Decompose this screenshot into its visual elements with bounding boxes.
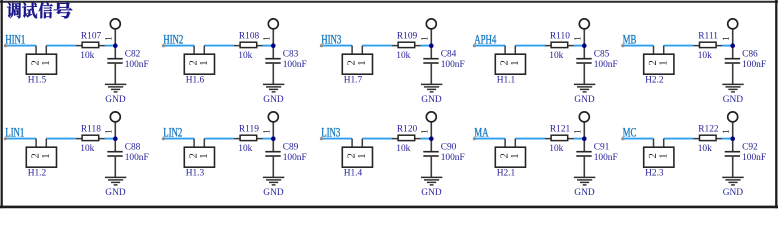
wire MC to connector pin 2 <box>623 138 654 140</box>
capacitor C84 to ground wire <box>430 64 432 84</box>
wire connector pin 1 to resistor R111 <box>664 45 694 47</box>
capacitor C90 plates <box>423 152 438 156</box>
svg-text:H1.4: H1.4 <box>344 168 363 178</box>
connector H1.5 pin 1 lead <box>45 46 47 55</box>
svg-text:GND: GND <box>105 95 126 105</box>
connector H1.5 pin number 1 <box>42 61 49 65</box>
ground <box>105 84 126 92</box>
capacitor C92 to ground wire <box>732 157 734 177</box>
capacitor C88 to ground wire <box>114 157 116 177</box>
connector H1.3 pin number 2 <box>189 154 196 158</box>
connector H1.5 pin number 2 <box>31 61 38 65</box>
wire connector pin 1 to resistor R122 <box>664 138 694 140</box>
connector H1.1 body <box>495 54 525 74</box>
svg-text:R111: R111 <box>698 32 718 42</box>
connector H2.1 pin 2 lead <box>504 139 506 148</box>
svg-text:10k: 10k <box>238 51 252 61</box>
wire resistor R120 to junction <box>421 138 431 140</box>
testpoint pin number 1 <box>263 37 269 40</box>
capacitor C85 plates <box>576 59 591 63</box>
connector H1.2 pin 1 lead <box>45 139 47 148</box>
capacitor C86 plates <box>725 59 740 63</box>
connector H2.1 pin number 1 <box>511 154 518 158</box>
capacitor C90 to ground wire <box>430 157 432 177</box>
svg-text:10k: 10k <box>80 51 94 61</box>
connector H1.2 pin number 1 <box>42 154 49 158</box>
connector H2.1 pin number 2 <box>500 154 507 158</box>
junction node <box>113 136 118 141</box>
node HIN2 wire start dot <box>162 44 165 47</box>
connector H1.7 pin 2 lead <box>351 46 353 55</box>
wire LIN2 to connector pin 2 <box>163 138 194 140</box>
svg-text:GND: GND <box>723 188 744 198</box>
wire LIN3 to connector pin 2 <box>322 138 353 140</box>
resistor R120 leads <box>392 138 421 140</box>
wire MA to connector pin 2 <box>475 138 506 140</box>
connector H1.3 pin 2 lead <box>193 139 195 148</box>
capacitor C85 to ground wire <box>583 64 585 84</box>
connector H1.2 pin 2 lead <box>35 139 37 148</box>
sheet border left <box>1 0 3 208</box>
resistor R111 leads <box>693 45 722 47</box>
svg-text:R108: R108 <box>239 32 260 42</box>
svg-text:H1.7: H1.7 <box>344 75 363 85</box>
svg-text:R109: R109 <box>397 32 418 42</box>
capacitor C83 plates <box>265 59 280 63</box>
svg-text:GND: GND <box>421 188 442 198</box>
svg-text:GND: GND <box>421 95 442 105</box>
testpoint pin number 1 <box>723 130 729 133</box>
connector H1.7 body <box>342 54 372 74</box>
connector H1.1 pin number 2 <box>500 61 507 65</box>
testpoint circle <box>728 112 738 122</box>
resistor R122 body <box>700 135 717 140</box>
connector H1.1 pin 2 lead <box>504 46 506 55</box>
connector H1.6 body <box>184 54 214 74</box>
svg-text:10k: 10k <box>549 144 563 154</box>
sheet border right <box>775 0 777 208</box>
testpoint pin number 1 <box>263 130 269 133</box>
wire connector pin 1 to resistor R120 <box>362 138 392 140</box>
svg-text:R121: R121 <box>550 125 571 135</box>
wire connector pin 1 to resistor R108 <box>204 45 234 47</box>
capacitor C91 to ground wire <box>583 157 585 177</box>
connector H1.4 body <box>342 147 372 167</box>
wire resistor R108 to junction <box>263 45 273 47</box>
connector H1.2 pin number 2 <box>31 154 38 158</box>
wire HIN3 to connector pin 2 <box>322 45 353 47</box>
capacitor C84 plates <box>423 59 438 63</box>
title text 调试信号 <box>7 2 72 18</box>
junction node <box>730 43 735 48</box>
svg-text:R107: R107 <box>81 32 102 42</box>
wire resistor R109 to junction <box>421 45 431 47</box>
wire resistor R121 to junction <box>574 138 584 140</box>
connector H1.6 pin number 1 <box>200 61 207 65</box>
resistor R109 leads <box>392 45 421 47</box>
testpoint pin stem <box>272 29 274 58</box>
svg-text:R119: R119 <box>239 125 259 135</box>
svg-text:H2.3: H2.3 <box>645 168 664 178</box>
connector H1.7 pin 1 lead <box>361 46 363 55</box>
testpoint pin number 1 <box>105 37 111 40</box>
svg-text:GND: GND <box>263 95 284 105</box>
svg-text:H1.2: H1.2 <box>28 168 47 178</box>
wire LIN1 to connector pin 2 <box>6 138 37 140</box>
connector H1.7 pin number 1 <box>358 61 365 65</box>
junction node <box>429 136 434 141</box>
resistor R108 leads <box>234 45 263 47</box>
svg-text:10k: 10k <box>80 144 94 154</box>
svg-text:10k: 10k <box>238 144 252 154</box>
connector H1.1 pin number 1 <box>511 61 518 65</box>
testpoint pin number 1 <box>421 37 427 40</box>
node LIN2 wire start dot <box>162 137 165 140</box>
wire resistor R107 to junction <box>105 45 115 47</box>
capacitor C82 plates <box>107 59 122 63</box>
connector H1.3 pin number 1 <box>200 154 207 158</box>
svg-text:100nF: 100nF <box>125 153 149 163</box>
ground <box>105 177 126 185</box>
sheet border top <box>0 1 778 3</box>
node LIN1 wire start dot <box>4 137 7 140</box>
resistor R122 leads <box>693 138 722 140</box>
svg-text:R120: R120 <box>397 125 418 135</box>
resistor R107 body <box>82 42 99 47</box>
connector H2.3 pin 1 lead <box>663 139 665 148</box>
wire resistor R118 to junction <box>105 138 115 140</box>
resistor R110 leads <box>545 45 574 47</box>
testpoint circle <box>110 19 120 29</box>
svg-text:100nF: 100nF <box>594 60 618 70</box>
testpoint circle <box>268 112 278 122</box>
testpoint circle <box>268 19 278 29</box>
testpoint pin stem <box>430 122 432 151</box>
resistor R118 leads <box>76 138 105 140</box>
connector H2.2 pin number 1 <box>659 61 666 65</box>
ground <box>263 177 284 185</box>
wire connector pin 1 to resistor R121 <box>515 138 545 140</box>
node HIN1 wire start dot <box>4 44 7 47</box>
testpoint circle <box>110 112 120 122</box>
ground <box>722 84 743 92</box>
junction node <box>730 136 735 141</box>
testpoint pin stem <box>583 29 585 58</box>
connector H1.7 pin number 2 <box>347 61 354 65</box>
svg-text:H2.2: H2.2 <box>645 75 664 85</box>
wire connector pin 1 to resistor R109 <box>362 45 392 47</box>
svg-text:100nF: 100nF <box>441 60 465 70</box>
connector H2.2 body <box>644 54 674 74</box>
resistor R108 body <box>240 42 257 47</box>
svg-text:GND: GND <box>574 95 595 105</box>
testpoint pin number 1 <box>723 37 729 40</box>
svg-text:H1.6: H1.6 <box>186 75 205 85</box>
wire HIN2 to connector pin 2 <box>163 45 194 47</box>
resistor R110 body <box>551 42 568 47</box>
testpoint pin stem <box>732 122 734 151</box>
testpoint pin stem <box>272 122 274 151</box>
svg-text:10k: 10k <box>549 51 563 61</box>
svg-text:10k: 10k <box>396 144 410 154</box>
wire connector pin 1 to resistor R119 <box>204 138 234 140</box>
junction node <box>582 43 587 48</box>
connector H2.3 pin number 2 <box>649 154 656 158</box>
svg-text:H1.3: H1.3 <box>186 168 205 178</box>
svg-text:100nF: 100nF <box>594 153 618 163</box>
ground <box>421 84 442 92</box>
svg-text:R110: R110 <box>550 32 570 42</box>
svg-text:C90: C90 <box>441 143 457 153</box>
connector H1.4 pin number 2 <box>347 154 354 158</box>
node MC wire start dot <box>621 137 624 140</box>
resistor R119 body <box>240 135 257 140</box>
testpoint pin stem <box>114 122 116 151</box>
svg-text:H1.1: H1.1 <box>497 75 516 85</box>
ground <box>263 84 284 92</box>
connector H2.2 pin number 2 <box>649 61 656 65</box>
wire connector pin 1 to resistor R107 <box>46 45 76 47</box>
capacitor C88 plates <box>107 152 122 156</box>
svg-text:C84: C84 <box>441 50 457 60</box>
connector H1.6 pin 1 lead <box>203 46 205 55</box>
capacitor C83 to ground wire <box>272 64 274 84</box>
svg-text:10k: 10k <box>698 51 712 61</box>
resistor R121 body <box>551 135 568 140</box>
capacitor C89 to ground wire <box>272 157 274 177</box>
connector H1.5 body <box>26 54 56 74</box>
wire resistor R110 to junction <box>574 45 584 47</box>
connector H1.3 body <box>184 147 214 167</box>
resistor R111 body <box>700 42 717 47</box>
capacitor C89 plates <box>265 152 280 156</box>
testpoint pin number 1 <box>574 37 580 40</box>
connector H2.3 pin 2 lead <box>653 139 655 148</box>
junction node <box>271 43 276 48</box>
svg-text:C92: C92 <box>742 143 758 153</box>
testpoint pin number 1 <box>105 130 111 133</box>
svg-text:GND: GND <box>263 188 284 198</box>
wire resistor R111 to junction <box>722 45 732 47</box>
wire resistor R119 to junction <box>263 138 273 140</box>
svg-text:R122: R122 <box>698 125 719 135</box>
junction node <box>113 43 118 48</box>
connector H1.3 pin 1 lead <box>203 139 205 148</box>
testpoint pin stem <box>732 29 734 58</box>
testpoint circle <box>579 112 589 122</box>
ground <box>421 177 442 185</box>
testpoint pin stem <box>583 122 585 151</box>
capacitor C82 to ground wire <box>114 64 116 84</box>
svg-text:100nF: 100nF <box>441 153 465 163</box>
ground <box>722 177 743 185</box>
wire connector pin 1 to resistor R110 <box>515 45 545 47</box>
wire MB to connector pin 2 <box>623 45 654 47</box>
svg-text:GND: GND <box>574 188 595 198</box>
svg-text:100nF: 100nF <box>125 60 149 70</box>
connector H1.4 pin 1 lead <box>361 139 363 148</box>
testpoint circle <box>426 19 436 29</box>
connector H1.4 pin 2 lead <box>351 139 353 148</box>
node MA wire start dot <box>473 137 476 140</box>
svg-text:100nF: 100nF <box>742 153 766 163</box>
ground <box>574 84 595 92</box>
testpoint pin stem <box>114 29 116 58</box>
resistor R120 body <box>398 135 415 140</box>
wire resistor R122 to junction <box>722 138 732 140</box>
svg-text:100nF: 100nF <box>742 60 766 70</box>
svg-text:10k: 10k <box>698 144 712 154</box>
wire connector pin 1 to resistor R118 <box>46 138 76 140</box>
svg-text:R118: R118 <box>81 125 101 135</box>
connector H1.6 pin number 2 <box>189 61 196 65</box>
svg-text:C85: C85 <box>594 50 610 60</box>
junction node <box>582 136 587 141</box>
node LIN3 wire start dot <box>320 137 323 140</box>
connector H1.1 pin 1 lead <box>514 46 516 55</box>
wire APH4 to connector pin 2 <box>475 45 506 47</box>
node APH4 wire start dot <box>473 44 476 47</box>
svg-text:C89: C89 <box>283 143 299 153</box>
node MB wire start dot <box>621 44 624 47</box>
connector H2.2 pin 1 lead <box>663 46 665 55</box>
sheet border bottom <box>0 206 778 209</box>
svg-text:C82: C82 <box>125 50 141 60</box>
connector H2.1 body <box>495 147 525 167</box>
connector H1.6 pin 2 lead <box>193 46 195 55</box>
testpoint pin number 1 <box>574 130 580 133</box>
capacitor C92 plates <box>725 152 740 156</box>
resistor R109 body <box>398 42 415 47</box>
svg-text:10k: 10k <box>396 51 410 61</box>
ground <box>574 177 595 185</box>
resistor R119 leads <box>234 138 263 140</box>
node HIN3 wire start dot <box>320 44 323 47</box>
connector H2.1 pin 1 lead <box>514 139 516 148</box>
svg-text:C91: C91 <box>594 143 610 153</box>
svg-text:C86: C86 <box>742 50 758 60</box>
svg-text:H2.1: H2.1 <box>497 168 516 178</box>
connector H1.2 body <box>26 147 56 167</box>
connector H2.3 body <box>644 147 674 167</box>
connector H1.4 pin number 1 <box>358 154 365 158</box>
svg-text:C88: C88 <box>125 143 141 153</box>
junction node <box>271 136 276 141</box>
svg-text:C83: C83 <box>283 50 299 60</box>
testpoint pin number 1 <box>421 130 427 133</box>
connector H2.2 pin 2 lead <box>653 46 655 55</box>
svg-text:GND: GND <box>723 95 744 105</box>
connector H2.3 pin number 1 <box>659 154 666 158</box>
testpoint circle <box>426 112 436 122</box>
testpoint circle <box>728 19 738 29</box>
resistor R121 leads <box>545 138 574 140</box>
svg-text:100nF: 100nF <box>283 60 307 70</box>
testpoint circle <box>579 19 589 29</box>
resistor R118 body <box>82 135 99 140</box>
svg-text:GND: GND <box>105 188 126 198</box>
resistor R107 leads <box>76 45 105 47</box>
svg-text:100nF: 100nF <box>283 153 307 163</box>
junction node <box>429 43 434 48</box>
svg-text:H1.5: H1.5 <box>28 75 47 85</box>
connector H1.5 pin 2 lead <box>35 46 37 55</box>
wire HIN1 to connector pin 2 <box>6 45 37 47</box>
testpoint pin stem <box>430 29 432 58</box>
capacitor C91 plates <box>576 152 591 156</box>
capacitor C86 to ground wire <box>732 64 734 84</box>
